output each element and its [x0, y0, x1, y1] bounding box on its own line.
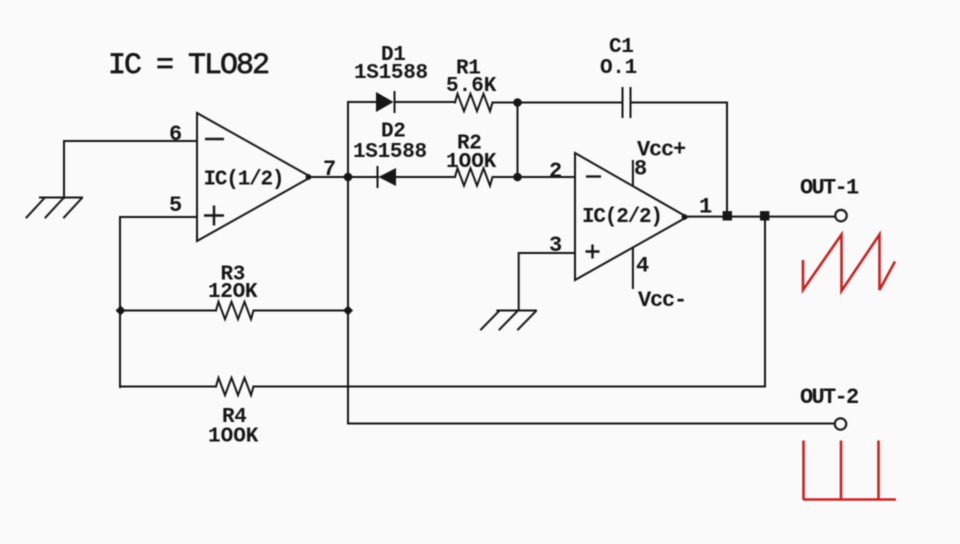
svg-text:1: 1	[699, 195, 712, 220]
svg-text:1S1588: 1S1588	[354, 62, 428, 85]
svg-text:C1: C1	[609, 36, 634, 59]
svg-text:OUT-1: OUT-1	[800, 176, 859, 201]
svg-text:IC(2/2): IC(2/2)	[582, 206, 662, 229]
svg-text:7: 7	[323, 157, 336, 182]
svg-text:4: 4	[636, 254, 649, 279]
svg-text:1OOK: 1OOK	[446, 151, 497, 174]
svg-text:6: 6	[169, 122, 182, 147]
svg-text:5.6K: 5.6K	[446, 75, 497, 98]
svg-text:IC(1/2): IC(1/2)	[204, 169, 284, 192]
svg-text:5: 5	[169, 193, 182, 218]
svg-text:3: 3	[549, 233, 562, 258]
svg-text:OUT-2: OUT-2	[800, 385, 858, 410]
svg-text:1S1588: 1S1588	[353, 141, 427, 164]
svg-text:12OK: 12OK	[208, 281, 258, 304]
svg-text:IC = TLO82: IC = TLO82	[108, 49, 268, 83]
svg-text:O.1: O.1	[600, 57, 637, 80]
svg-text:Vcc+: Vcc+	[637, 138, 686, 163]
svg-text:1OOK: 1OOK	[208, 426, 259, 449]
svg-text:2: 2	[549, 159, 562, 184]
svg-text:Vcc-: Vcc-	[638, 288, 686, 313]
